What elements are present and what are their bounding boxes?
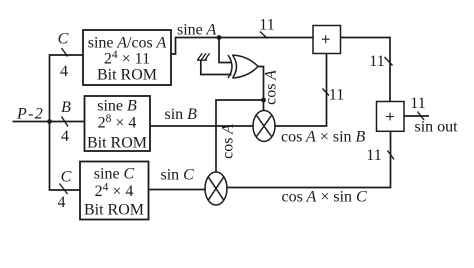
svg-text:sine A/cos A: sine A/cos A [88, 35, 167, 52]
svg-text:cos A × sin B: cos A × sin B [281, 129, 366, 146]
node sine A junction [217, 35, 222, 40]
wire P-2 input [13, 121, 85, 123]
node P-2 junction [47, 119, 52, 124]
bus slash 11 top [260, 32, 268, 39]
multiplier M2 [205, 172, 227, 205]
svg-text:11: 11 [366, 147, 381, 164]
bus slash C top [62, 48, 68, 57]
svg-text:28 × 4: 28 × 4 [98, 113, 137, 132]
multiplier M1 [253, 111, 275, 142]
svg-text:24 × 11: 24 × 11 [104, 49, 150, 68]
svg-text:C: C [58, 31, 69, 48]
adder U2 [377, 102, 405, 132]
svg-text:sine C: sine C [94, 166, 135, 183]
wire XOR top input [219, 38, 232, 63]
svg-text:cos A: cos A [263, 70, 280, 105]
wire rail up to ROM A [50, 55, 84, 122]
svg-text:4: 4 [60, 63, 68, 80]
ROM B label [87, 98, 147, 152]
svg-text:11: 11 [410, 95, 425, 112]
svg-text:4: 4 [61, 128, 69, 145]
bus slash 11 mult1 [323, 89, 330, 96]
svg-text:Bit ROM: Bit ROM [97, 67, 157, 84]
ground hatch symbol [197, 53, 210, 60]
adder U1 [313, 26, 341, 54]
wire cos A from XOR to multiplier M1 [258, 67, 264, 112]
wire cos A x sin B to adder 1 [275, 54, 327, 127]
svg-text:cos A × sin C: cos A × sin C [282, 189, 368, 206]
wire cos A x sin C to adder 2 [227, 131, 391, 187]
wire sine A from ROM A to adder [171, 38, 314, 55]
svg-text:cos A: cos A [220, 124, 237, 159]
ROM C label [84, 166, 144, 219]
svg-text:sin C: sin C [161, 167, 195, 184]
bus slash 11 bottom [388, 151, 395, 160]
bus slash B [62, 117, 69, 127]
svg-text:C: C [61, 169, 72, 186]
wire XOR bottom input from hatch [201, 60, 232, 75]
wire cos A branch to multiplier M2 [216, 100, 264, 172]
svg-text:P - 2: P - 2 [16, 106, 43, 123]
svg-text:sine B: sine B [97, 98, 137, 115]
svg-text:11: 11 [369, 53, 384, 70]
ROM A label [88, 35, 167, 84]
bus slash 11 adder link [385, 57, 393, 66]
svg-text:11: 11 [259, 17, 274, 34]
svg-text:Bit ROM: Bit ROM [84, 202, 144, 219]
ROM A box [83, 30, 171, 85]
bus slash C bottom [60, 184, 68, 195]
XOR gate [228, 55, 258, 78]
svg-text:24 × 4: 24 × 4 [95, 182, 134, 201]
wire adder 1 to adder 2 [341, 38, 391, 102]
svg-text:sine A: sine A [177, 22, 216, 39]
ROM C box [80, 162, 149, 220]
node cos A junction [261, 98, 266, 103]
svg-text:11: 11 [329, 87, 344, 104]
wire rail down to ROM C [50, 122, 81, 191]
svg-text:sin B: sin B [165, 106, 198, 123]
ROM B box [85, 96, 151, 151]
svg-text:4: 4 [58, 194, 66, 211]
svg-text:sin out: sin out [415, 119, 459, 136]
wire sin B [150, 125, 253, 127]
svg-text:B: B [61, 99, 71, 116]
svg-text:Bit ROM: Bit ROM [87, 135, 147, 152]
bus slash 11 out [418, 112, 425, 121]
wire sin C [149, 189, 206, 191]
wire sin out [404, 115, 429, 117]
